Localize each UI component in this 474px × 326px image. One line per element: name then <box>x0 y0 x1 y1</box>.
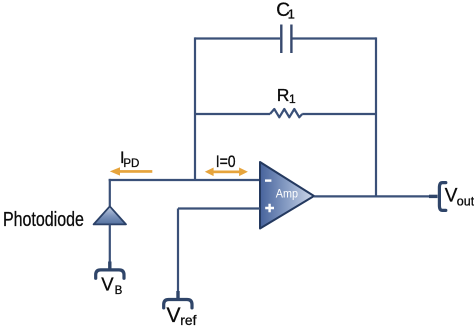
capacitor C1 <box>281 25 291 54</box>
wire: R1 right lead <box>302 113 376 115</box>
op-amp inverting pin marker <box>265 179 271 181</box>
current arrow I=0 <box>205 168 248 177</box>
wire: top feedback segment left of C1 <box>195 37 280 39</box>
label V_ref <box>167 304 197 326</box>
svg-text:Amp: Amp <box>276 188 298 201</box>
wire: V_ref riser <box>177 209 179 293</box>
terminal V_out <box>439 183 445 211</box>
wire: left feedback vertical <box>194 37 196 180</box>
wire: top feedback segment right of C1 <box>293 37 377 39</box>
svg-text:ref: ref <box>180 313 196 326</box>
wire: V_ref terminal nub <box>176 291 179 299</box>
svg-text:R: R <box>277 85 290 105</box>
svg-text:out: out <box>457 194 474 208</box>
wire: summing node horizontal (inverting input net) <box>109 179 260 181</box>
resistor R1 <box>270 109 302 117</box>
label V_B <box>101 274 122 297</box>
svg-text:1: 1 <box>289 92 296 106</box>
label V_out <box>445 186 474 209</box>
svg-text:V: V <box>101 274 114 295</box>
wire: photodiode cathode lead <box>109 179 111 206</box>
wire: output net <box>314 195 430 197</box>
wire: non-inverting input net <box>178 207 260 209</box>
wire: right feedback vertical <box>375 37 377 196</box>
label R1 <box>277 85 296 106</box>
photodiode D1 <box>94 206 126 224</box>
svg-text:B: B <box>115 285 123 297</box>
wire: R1 left lead <box>195 113 270 115</box>
op-amp non-inverting pin marker <box>265 204 274 213</box>
label C1 <box>276 0 295 22</box>
op-amp U1 <box>260 162 314 229</box>
svg-text:I=0: I=0 <box>216 153 236 171</box>
svg-text:Photodiode: Photodiode <box>3 207 84 230</box>
label I_PD <box>120 149 139 170</box>
terminal V_B <box>96 270 124 278</box>
terminal V_ref <box>164 300 192 308</box>
wire: photodiode anode lead <box>109 224 111 263</box>
svg-text:V: V <box>167 304 181 326</box>
svg-text:1: 1 <box>288 7 295 22</box>
wire: V_out terminal nub <box>429 195 438 198</box>
svg-text:PD: PD <box>123 158 139 170</box>
current arrow I_PD <box>110 167 153 175</box>
wire: V_B terminal nub <box>108 262 111 270</box>
